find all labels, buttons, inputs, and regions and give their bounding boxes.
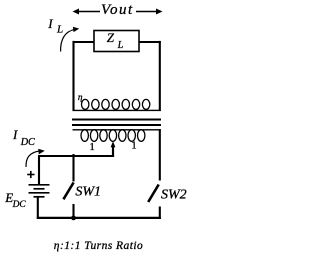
center tap arrowhead xyxy=(111,141,116,147)
battery EDC plate long 1 xyxy=(29,184,50,186)
wire battery bottom xyxy=(37,198,39,219)
primary winding coils xyxy=(81,130,145,142)
battery plate short 2 xyxy=(34,196,45,198)
wire right rail xyxy=(159,41,161,111)
wire SW2 bottom xyxy=(159,207,161,219)
wire center tap to battery xyxy=(39,155,115,157)
wire ZL to right rail xyxy=(139,41,161,43)
label IDC xyxy=(12,127,35,148)
wire bottom bus xyxy=(37,217,161,219)
wire top left horizontal xyxy=(73,41,95,43)
battery plate short 1 xyxy=(34,188,45,190)
label EDC xyxy=(4,190,26,210)
wire battery top xyxy=(38,155,40,185)
svg-text:I: I xyxy=(12,127,18,142)
battery plate long 2 xyxy=(29,192,50,194)
svg-text:SW2: SW2 xyxy=(161,188,187,203)
switch SW2 blade xyxy=(148,185,159,203)
label IL xyxy=(47,16,63,35)
svg-text:DC: DC xyxy=(12,200,27,210)
svg-text:I: I xyxy=(47,16,53,31)
svg-text:η:1:1 Turns Ratio: η:1:1 Turns Ratio xyxy=(54,240,143,252)
Vout dimension arrow right shaft xyxy=(136,11,158,13)
secondary winding baseline xyxy=(73,109,151,111)
transformer core line 2 xyxy=(72,124,161,126)
svg-text:L: L xyxy=(56,23,63,35)
switch SW1 blade xyxy=(63,183,73,200)
transformer core line 1 xyxy=(72,119,161,121)
wire left rail xyxy=(72,41,74,111)
svg-text:Vout: Vout xyxy=(101,2,134,18)
IDC curved arrow xyxy=(26,149,45,167)
primary winding top line xyxy=(73,129,161,131)
svg-text:1: 1 xyxy=(90,142,95,153)
IL curved arrow xyxy=(61,27,80,52)
svg-text:1: 1 xyxy=(131,141,136,152)
wire SW1 bottom xyxy=(72,204,74,218)
svg-text:L: L xyxy=(117,40,124,51)
svg-text:DC: DC xyxy=(20,137,35,148)
secondary winding coils xyxy=(82,99,150,109)
svg-text:SW1: SW1 xyxy=(75,185,101,200)
svg-text:Z: Z xyxy=(107,30,115,45)
wire SW2 top xyxy=(159,129,161,180)
wire SW1 top xyxy=(72,154,74,182)
Vout dimension arrow left head xyxy=(73,9,80,15)
Vout dimension arrow left shaft xyxy=(77,11,100,13)
Vout dimension arrow right head xyxy=(156,9,163,15)
battery plus sign xyxy=(27,171,34,178)
junction dot SW1 bottom xyxy=(71,216,76,221)
label ZL xyxy=(107,30,124,51)
load ZL box xyxy=(94,31,139,52)
center tap stem xyxy=(112,146,114,157)
secondary winding right jog xyxy=(150,109,161,111)
